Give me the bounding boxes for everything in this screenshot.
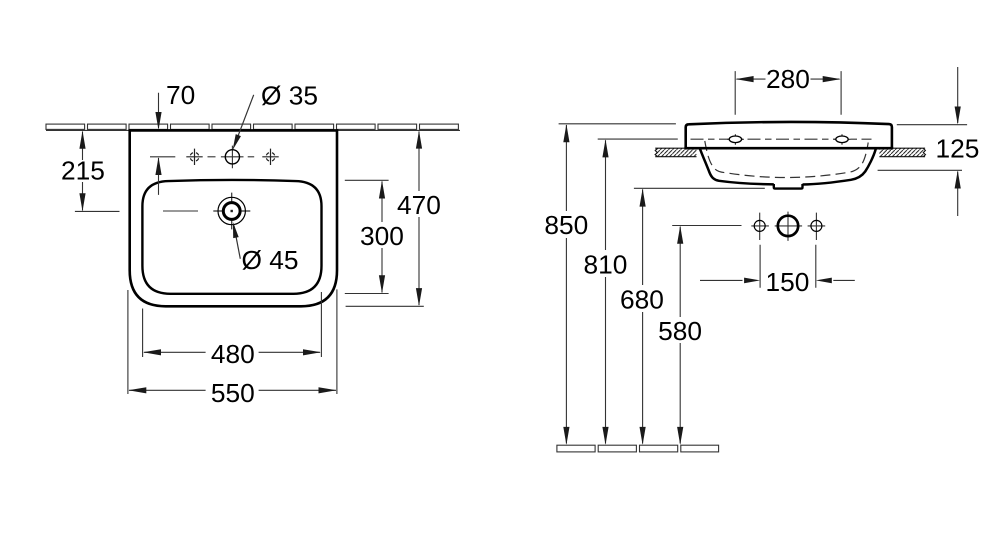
drain stub (bold) [774, 184, 803, 189]
dimension 150 (hole spacing side view) [700, 245, 855, 288]
centerline dash between tap hole and right target [248, 156, 255, 158]
hidden bowl centerline (dashed, y=139.2) [691, 138, 872, 140]
left optional tap hole target [186, 149, 202, 165]
extension line for 580 (tap hole row) [672, 225, 741, 227]
basin inner rim (top view, bold) [142, 180, 321, 294]
washbasin flange outline (side view, bold) [686, 122, 892, 148]
dimension 680 [640, 189, 646, 445]
washbasin outer outline (top view, bold) [130, 130, 337, 306]
svg-text:215: 215 [61, 156, 105, 186]
bowl outline (side view, bold) [700, 149, 876, 185]
drain centerline dash [163, 210, 198, 212]
tap hole Ø35 (circle with crosshair) [221, 146, 244, 169]
svg-text:125: 125 [936, 133, 980, 163]
svg-text:580: 580 [658, 316, 702, 346]
tap hole group (side view): left small hole [751, 213, 769, 240]
wall tile band (left view) [46, 124, 458, 129]
dimension 810 [602, 139, 608, 445]
dimension 300 (inner basin depth) [345, 180, 389, 293]
svg-text:810: 810 [584, 249, 628, 279]
right fixing hole (ellipse with ticks) [834, 134, 851, 145]
leader arrow for Ø35 [234, 95, 254, 146]
extension line for 810 (hidden rim line) [598, 138, 678, 140]
extension line for 680 (drain stub bottom) [634, 187, 765, 189]
left wall hatch band [655, 148, 696, 157]
svg-text:480: 480 [211, 339, 255, 369]
centerline dash between target and tap hole [208, 156, 216, 158]
svg-text:150: 150 [766, 267, 810, 297]
leader arrow for Ø45 [234, 226, 240, 259]
svg-text:850: 850 [544, 210, 588, 240]
dimension 850 (floor to rim) [563, 124, 569, 445]
dimension 125 (flange height) [878, 67, 968, 216]
dimension 70 (tap hole offset from wall) [155, 93, 161, 195]
left fixing hole (ellipse with ticks) [727, 134, 744, 145]
hidden inner bowl contour (dashed) [705, 141, 868, 178]
tap hole group: center hole (bold) [775, 212, 802, 241]
extension line for 850 (top of basin) [559, 123, 676, 125]
wall surface line (left view) [46, 129, 460, 131]
dimension 550 (outer width) [128, 289, 337, 394]
right optional tap hole target [262, 149, 278, 165]
right wall hatch band [879, 148, 925, 157]
svg-text:550: 550 [211, 378, 255, 408]
dimension 215 (wall to drain center) [75, 131, 120, 212]
tap hole centerline tick (y=156.8) [150, 156, 175, 158]
svg-text:470: 470 [397, 190, 441, 220]
drain hole Ø45 (double circle with crosshair) [213, 193, 250, 230]
tap hole group: right small hole [808, 213, 826, 240]
svg-text:300: 300 [360, 221, 404, 251]
svg-text:280: 280 [766, 64, 810, 94]
dimension 580 [677, 226, 683, 445]
dimension 280 (fixing hole spacing) [735, 71, 841, 115]
svg-text:680: 680 [620, 284, 664, 314]
dimension 470 (outer depth) [346, 131, 424, 307]
floor tile band (side view) [557, 445, 719, 452]
svg-text:Ø 45: Ø 45 [242, 245, 299, 275]
svg-text:70: 70 [166, 80, 195, 110]
svg-text:Ø 35: Ø 35 [261, 80, 318, 110]
dimension 480 (inner width) [143, 292, 322, 357]
flange bottom edge (bold) [684, 147, 893, 150]
